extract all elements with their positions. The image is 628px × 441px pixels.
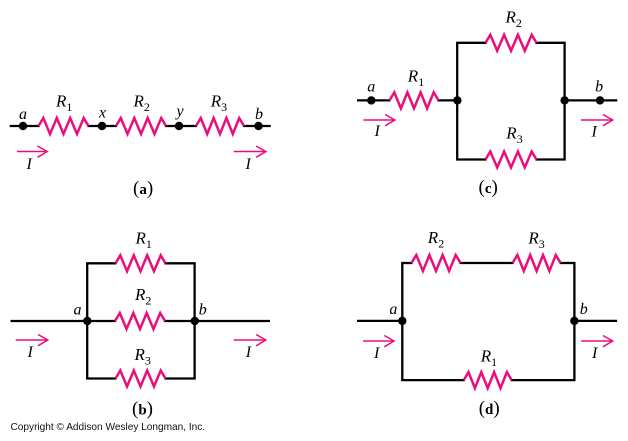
label R1 (b) xyxy=(135,228,152,251)
node b (d) xyxy=(570,317,578,325)
label I left (c) xyxy=(374,123,381,140)
current arrow left (d) xyxy=(363,336,394,347)
svg-text:I: I xyxy=(27,344,34,361)
node b (c) xyxy=(596,96,604,104)
svg-text:a: a xyxy=(389,301,397,318)
svg-text:I: I xyxy=(591,124,598,141)
wire x segment (a) xyxy=(88,125,118,127)
svg-text:(b): (b) xyxy=(132,399,153,420)
junction node right (c) xyxy=(560,96,568,104)
svg-text:b: b xyxy=(199,302,207,319)
label node a (a) xyxy=(19,106,27,123)
right vertical wire (c) xyxy=(563,43,565,160)
svg-text:I: I xyxy=(373,345,380,362)
resistor R1 (a) xyxy=(39,118,89,134)
caption (c) xyxy=(479,177,498,198)
left vertical wire (b) xyxy=(86,263,88,378)
current arrow left (b) xyxy=(16,335,48,346)
current arrow left (c) xyxy=(363,115,395,126)
svg-text:I: I xyxy=(245,344,252,361)
junction node left (c) xyxy=(453,96,461,104)
node a (c) xyxy=(367,96,375,104)
main wire left segment (b) xyxy=(11,320,117,322)
label R1 (d) xyxy=(480,346,497,369)
current arrow left (a) xyxy=(17,146,47,157)
svg-text:b: b xyxy=(595,79,603,96)
svg-text:a: a xyxy=(74,302,82,319)
node y (a) xyxy=(175,122,183,130)
label I left (d) xyxy=(373,345,380,362)
svg-text:(c): (c) xyxy=(479,177,498,198)
output wire (c) xyxy=(564,99,617,101)
bottom rail right segment (d) xyxy=(511,379,576,381)
wire right segment (a) xyxy=(243,125,271,127)
input wire (d) xyxy=(357,320,402,322)
resistor R1 (b) xyxy=(116,255,166,271)
resistor R2 (c) xyxy=(486,35,537,51)
label node b (d) xyxy=(580,301,588,318)
caption (b) xyxy=(132,399,153,420)
label R2 (c) xyxy=(505,8,522,31)
label node b (a) xyxy=(255,106,263,123)
label I left (a) xyxy=(26,156,33,173)
label node a (b) xyxy=(74,302,82,319)
label R2 (b) xyxy=(134,285,151,308)
node b (b) xyxy=(191,317,199,325)
bottom rail right segment (b) xyxy=(165,377,196,379)
resistor R2 (b) xyxy=(115,313,165,329)
top rail right segment (d) xyxy=(560,262,576,264)
bottom rail right segment (c) xyxy=(536,158,566,160)
resistor R2 (a) xyxy=(116,118,166,134)
label node b (c) xyxy=(595,79,603,96)
current arrow right (a) xyxy=(234,146,266,157)
main wire right segment (b) xyxy=(164,320,270,322)
caption (a) xyxy=(133,178,153,199)
bottom rail left segment (d) xyxy=(401,379,465,381)
resistor R1 (d) xyxy=(464,372,512,388)
resistor R1 (c) xyxy=(390,92,439,108)
resistor R3 (a) xyxy=(196,118,244,134)
svg-text:(d): (d) xyxy=(479,398,500,419)
svg-text:y: y xyxy=(175,103,185,120)
label node a (d) xyxy=(389,301,397,318)
label R2 (a) xyxy=(133,92,150,115)
svg-text:Copyright © Addison Wesley Lon: Copyright © Addison Wesley Longman, Inc. xyxy=(11,422,206,433)
label I right (c) xyxy=(591,124,598,141)
top rail middle segment (d) xyxy=(460,262,514,264)
wire y segment (a) xyxy=(165,125,197,127)
right vertical wire (d) xyxy=(573,263,575,380)
top rail right segment (b) xyxy=(165,262,196,264)
resistor R2 (d) xyxy=(412,255,461,271)
left vertical wire (c) xyxy=(456,43,458,160)
svg-text:I: I xyxy=(591,345,598,362)
resistor R3 (d) xyxy=(513,255,561,271)
svg-text:a: a xyxy=(367,79,375,96)
label node b (b) xyxy=(199,302,207,319)
right vertical wire (b) xyxy=(193,263,195,378)
label R1 (c) xyxy=(407,66,424,89)
resistor R3 (b) xyxy=(116,371,166,387)
label R3 (a) xyxy=(210,92,227,115)
node x (a) xyxy=(98,122,106,130)
current arrow right (c) xyxy=(581,115,613,126)
top rail left segment (b) xyxy=(86,262,116,264)
node a (b) xyxy=(83,317,91,325)
svg-text:a: a xyxy=(19,106,27,123)
left vertical wire (d) xyxy=(401,263,403,380)
wire left segment (a) xyxy=(10,125,40,127)
node b (a) xyxy=(254,122,262,130)
copyright notice xyxy=(11,422,206,433)
top rail left segment (d) xyxy=(401,262,412,264)
label I right (d) xyxy=(591,345,598,362)
node a (d) xyxy=(398,317,406,325)
current arrow right (b) xyxy=(234,335,266,346)
svg-text:x: x xyxy=(98,105,106,122)
label I right (b) xyxy=(245,344,252,361)
label I left (b) xyxy=(27,344,34,361)
input wire left segment (c) xyxy=(357,99,391,101)
label R2 (d) xyxy=(427,228,444,251)
svg-text:b: b xyxy=(580,301,588,318)
label R1 (a) xyxy=(55,92,72,115)
svg-text:I: I xyxy=(26,156,33,173)
caption (d) xyxy=(479,398,500,419)
svg-text:(a): (a) xyxy=(133,178,153,199)
label node a (c) xyxy=(367,79,375,96)
label I right (a) xyxy=(245,156,252,173)
bottom rail left segment (c) xyxy=(456,158,486,160)
output wire (d) xyxy=(574,320,617,322)
label R3 (b) xyxy=(134,345,151,368)
top rail right segment (c) xyxy=(536,42,566,44)
node a (a) xyxy=(19,122,27,130)
label R3 (d) xyxy=(527,229,544,252)
resistor R3 (c) xyxy=(486,152,537,168)
current arrow right (d) xyxy=(581,336,613,347)
label node y (a) xyxy=(175,103,185,120)
label node x (a) xyxy=(98,105,106,122)
label R3 (c) xyxy=(505,123,522,146)
svg-text:I: I xyxy=(374,123,381,140)
svg-text:I: I xyxy=(245,156,252,173)
top rail left segment (c) xyxy=(456,42,486,44)
svg-text:b: b xyxy=(255,106,263,123)
input wire right segment (c) xyxy=(438,99,459,101)
bottom rail left segment (b) xyxy=(86,377,116,379)
